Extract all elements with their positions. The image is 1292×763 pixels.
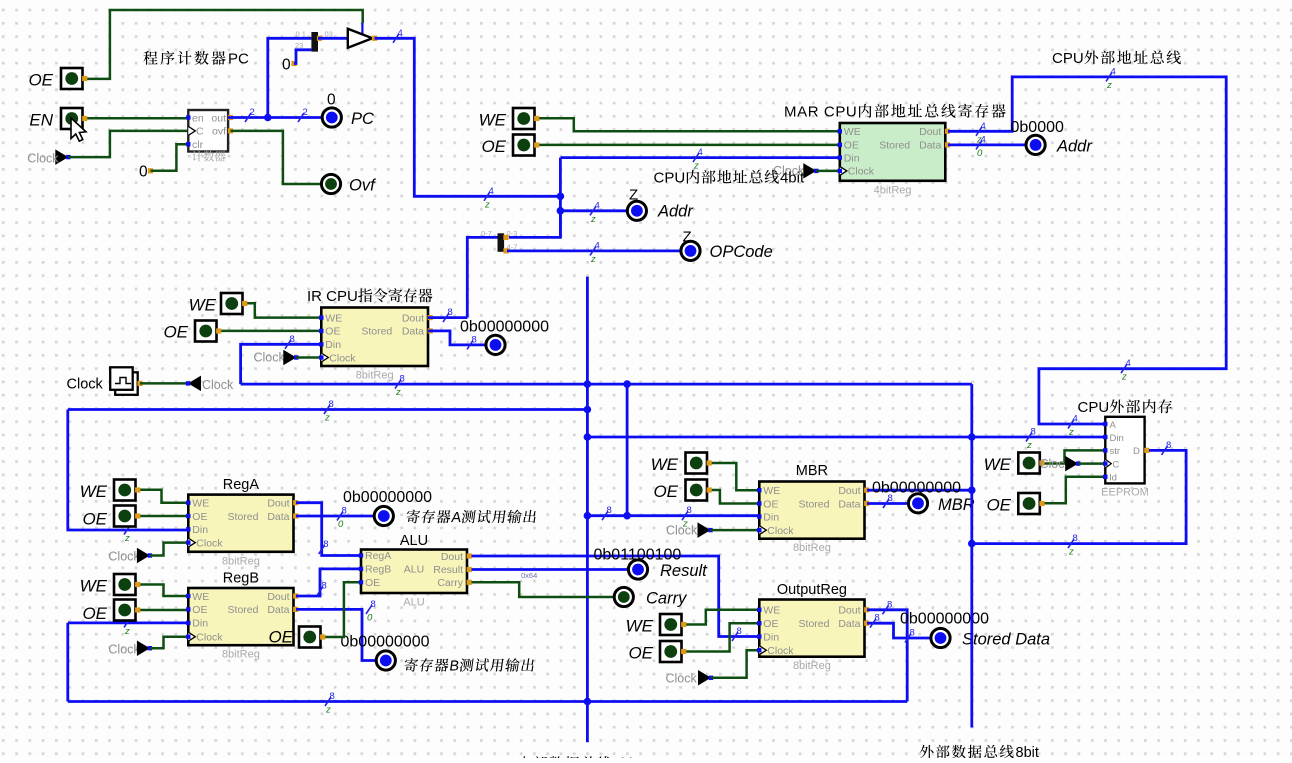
label bus width 8 (RegB Dout)	[317, 581, 327, 596]
label bus width 4 (ext addr bus)	[1106, 66, 1116, 91]
svg-text:8: 8	[371, 599, 376, 610]
svg-text:0b0000: 0b0000	[1011, 119, 1064, 136]
svg-text:z: z	[1121, 372, 1127, 383]
wire clock to IR	[296, 356, 321, 359]
svg-text:4: 4	[595, 240, 600, 251]
label bus width 8 (EEPROM D)	[1162, 440, 1172, 455]
counter U1 (PC counter)	[186, 110, 233, 152]
input button OE (OutputReg)	[660, 641, 686, 662]
svg-text:8bitReg: 8bitReg	[222, 555, 260, 567]
mouse cursor	[71, 118, 86, 141]
svg-text:4: 4	[698, 147, 703, 158]
svg-text:WE: WE	[844, 126, 861, 138]
wire clock to EEPROM C	[1078, 462, 1105, 465]
svg-text:8: 8	[1166, 440, 1171, 451]
wire MAR Dout to ext addr bus	[948, 77, 1226, 424]
svg-text:OE: OE	[192, 604, 207, 616]
node addr bus junction B	[557, 207, 565, 215]
register RegA (8bitReg)	[186, 495, 298, 568]
svg-text:RegB: RegB	[223, 571, 259, 587]
output pin Stored Data pin	[931, 628, 950, 647]
svg-text:8: 8	[322, 581, 327, 592]
svg-text:0: 0	[282, 57, 291, 74]
wire WE to MBR	[709, 463, 759, 490]
svg-text:8bitReg: 8bitReg	[222, 649, 260, 661]
wire MBR Din wire	[587, 514, 759, 517]
svg-text:clr: clr	[192, 139, 204, 151]
svg-text:23: 23	[295, 41, 303, 50]
svg-text:Data: Data	[267, 604, 289, 616]
svg-text:WE: WE	[763, 485, 780, 497]
svg-text:0: 0	[139, 163, 148, 180]
output pin Carry	[614, 587, 633, 606]
register MAR (4bitReg)	[838, 123, 951, 196]
svg-text:Stored: Stored	[799, 498, 830, 510]
svg-text:WE: WE	[80, 577, 108, 596]
svg-text:z: z	[484, 199, 490, 210]
svg-text:Dout: Dout	[267, 498, 289, 510]
input button WE (RegB)	[114, 574, 140, 595]
tunnel Clock for RegA	[137, 548, 152, 564]
svg-text:Dout: Dout	[838, 605, 860, 617]
output pin RegA test output	[374, 506, 393, 525]
output pin Addr (external)	[1026, 135, 1045, 154]
svg-text:PC: PC	[351, 110, 374, 128]
output pin PC	[322, 108, 341, 127]
node data bus x reg din	[584, 406, 592, 414]
tunnel Clock source for counter	[55, 149, 70, 165]
tri-state buffer (PC to bus)	[348, 29, 377, 48]
svg-text:WE: WE	[479, 111, 507, 130]
svg-text:Z: Z	[683, 229, 692, 246]
svg-text:8: 8	[1031, 427, 1036, 438]
label bus width 8 (MBR Din b)	[682, 505, 692, 530]
wire IR Din wire	[241, 344, 322, 384]
svg-text:Z: Z	[629, 187, 638, 204]
svg-text:Clock: Clock	[666, 672, 698, 686]
svg-text:z: z	[1106, 80, 1112, 91]
svg-text:Data: Data	[838, 618, 860, 630]
output pin Addr (internal)	[627, 201, 646, 220]
svg-text:WE: WE	[984, 455, 1012, 474]
input button OE (EEPROM)	[1018, 493, 1044, 514]
label bus width 8 (data bus)	[395, 374, 405, 399]
svg-text:Stored Data: Stored Data	[962, 631, 1050, 649]
svg-text:0b00000000: 0b00000000	[341, 634, 430, 651]
wire OutputReg stored to pin	[867, 623, 931, 638]
output pin MBR output pin	[908, 494, 927, 513]
svg-text:Clock: Clock	[108, 550, 140, 564]
svg-text:4: 4	[489, 186, 494, 197]
node eeprom din x	[968, 433, 976, 441]
svg-text:WE: WE	[80, 482, 108, 501]
svg-text:MBR: MBR	[796, 463, 828, 479]
svg-text:CPU: CPU	[1052, 50, 1084, 67]
wire RegA Dout to ALU	[296, 503, 361, 556]
svg-text:Data: Data	[402, 326, 424, 338]
svg-text:0b00000000: 0b00000000	[460, 319, 549, 336]
svg-text:z: z	[1026, 440, 1032, 451]
svg-text:8: 8	[607, 505, 612, 516]
input button OE button (ALU)	[299, 627, 325, 648]
node addr bus junction A	[557, 193, 565, 201]
svg-text:0: 0	[977, 148, 983, 159]
wire WE to RegB	[138, 585, 189, 597]
wire clock to RegB	[150, 637, 188, 649]
ALU U2	[359, 550, 472, 609]
label MAR CPU内部地址总线寄存器	[784, 104, 1006, 121]
svg-text:ALU: ALU	[403, 597, 424, 609]
wire OE to RegB	[138, 609, 189, 612]
wire OE to RegA	[138, 515, 189, 518]
node data bus x IR feed	[584, 380, 592, 388]
svg-text:Clock: Clock	[67, 377, 104, 393]
svg-text:4: 4	[595, 200, 600, 211]
label bus width 8 (RegA Din)	[124, 520, 134, 545]
svg-text:MAR CPU: MAR CPU	[784, 104, 857, 121]
wire MBR stored to pin	[867, 502, 908, 505]
wire IR[4-7] to OPCode	[507, 249, 681, 252]
wire ALU Dout to OutputReg Din	[472, 556, 760, 637]
svg-text:z: z	[693, 161, 699, 172]
svg-text:Addr: Addr	[1056, 138, 1093, 156]
svg-text:A: A	[1110, 420, 1117, 431]
svg-text:Addr: Addr	[657, 203, 694, 221]
svg-text:IR CPU: IR CPU	[307, 288, 358, 305]
label bus width 8 (RegB Din)	[124, 612, 134, 637]
svg-text:CPU: CPU	[654, 170, 686, 187]
svg-text:2: 2	[303, 107, 308, 118]
wire OE to MBR	[709, 490, 759, 504]
svg-text:8bit: 8bit	[1016, 745, 1039, 758]
svg-text:4: 4	[1126, 358, 1131, 369]
wire bottom bus left leg	[66, 623, 69, 702]
wire EEPROM Din wire	[587, 436, 1105, 439]
input button OE (IR)	[195, 321, 221, 342]
wire 0 to counter clr	[151, 144, 189, 171]
tunnel Clock for IR	[283, 350, 298, 366]
svg-text:OE: OE	[325, 326, 340, 338]
svg-text:z: z	[324, 413, 330, 424]
label bus width 8 (IR test out)	[467, 334, 477, 349]
svg-text:OutputReg: OutputReg	[777, 582, 847, 598]
wire IR dout vertical	[467, 237, 497, 317]
svg-text:RegA: RegA	[365, 550, 391, 562]
label 程序计数器PC	[143, 51, 249, 68]
svg-text:OPCode: OPCode	[710, 243, 773, 261]
label bus width 4 (MAR stored)	[976, 134, 986, 159]
input button WE (EEPROM)	[1018, 453, 1044, 474]
svg-text:8: 8	[687, 505, 692, 516]
svg-text:4: 4	[398, 28, 403, 39]
tunnel Clock for OutputReg	[698, 670, 713, 686]
wire RegA stored to pin	[296, 515, 374, 518]
svg-text:Clock: Clock	[848, 166, 875, 178]
node bus x MBR din	[584, 512, 592, 520]
svg-text:WE: WE	[325, 312, 342, 324]
svg-text:Clock: Clock	[196, 537, 223, 549]
node MBR din tap joint	[623, 512, 631, 520]
node bus x eeprom din	[584, 433, 592, 441]
svg-text:4: 4	[1111, 66, 1116, 77]
svg-text:Clock: Clock	[202, 378, 234, 392]
wire ovf to Ovf pin	[231, 131, 322, 184]
svg-text:z: z	[1068, 547, 1074, 558]
svg-text:Din: Din	[844, 152, 860, 164]
label bus width 8 (MBR Din a)	[602, 505, 612, 520]
label 内部数据总线8bit (clipped)	[519, 756, 637, 763]
svg-text:ALU: ALU	[404, 564, 424, 576]
wire WE to IR	[245, 303, 322, 317]
output pin RegB test output	[376, 651, 395, 670]
svg-text:WE: WE	[651, 455, 679, 474]
svg-text:Stored: Stored	[228, 511, 259, 523]
wire counter out bus	[228, 116, 322, 119]
svg-text:0b00000000: 0b00000000	[900, 611, 989, 628]
svg-text:Clock: Clock	[767, 525, 794, 537]
svg-text:z: z	[590, 254, 596, 265]
label 计数器 (counter subtitle)	[192, 151, 226, 162]
svg-text:OE: OE	[365, 577, 380, 589]
svg-text:out: out	[211, 112, 226, 124]
wire RegB stored to pin	[296, 609, 376, 660]
input button OE (MAR)	[513, 135, 539, 156]
wire OE to ALU	[323, 582, 362, 637]
svg-text:Data: Data	[838, 498, 860, 510]
svg-text:OE: OE	[82, 510, 107, 529]
svg-text:Clock: Clock	[329, 352, 356, 364]
input button WE (OutputReg)	[660, 614, 686, 635]
wire ALU Carry to pin	[472, 582, 614, 597]
wire MBR din vertical	[626, 384, 629, 516]
svg-text:Dout: Dout	[838, 485, 860, 497]
label bus width 8 (RegB test)	[366, 599, 376, 624]
svg-text:OE: OE	[844, 140, 859, 152]
label bus width 4 (buffer out)	[393, 28, 403, 43]
wire 0 to splitter 2-3	[294, 50, 311, 64]
label CPU内部地址总线4bit	[654, 170, 805, 187]
svg-text:Dout: Dout	[441, 551, 463, 563]
wire EEPROM D to ext data bus	[972, 450, 1186, 543]
svg-text:Stored: Stored	[228, 604, 259, 616]
wire WE to EEPROM str	[1041, 450, 1105, 463]
tunnel Clock sink tunnel	[186, 376, 201, 392]
svg-text:ovf: ovf	[212, 126, 226, 138]
label bus width 8 (bottom bus)	[325, 691, 335, 716]
wire MBR Dout wire	[867, 489, 972, 492]
svg-text:z: z	[124, 626, 130, 637]
svg-text:Data: Data	[267, 511, 289, 523]
svg-text:8: 8	[330, 691, 335, 702]
register MBR (8bitReg)	[757, 482, 869, 555]
svg-text:C: C	[1113, 459, 1120, 470]
constant 0 high nub	[291, 61, 296, 66]
svg-text:8: 8	[910, 628, 915, 639]
label CPU外部地址总线	[1052, 50, 1181, 67]
label bus width 8 (MBR test)	[883, 493, 893, 508]
svg-text:CPU: CPU	[1078, 399, 1110, 416]
svg-text:MBR: MBR	[938, 496, 975, 514]
tunnel Clock for RegB	[137, 640, 152, 656]
svg-text:OE: OE	[82, 604, 107, 623]
svg-text:PC: PC	[228, 51, 249, 68]
register IR (8bitReg)	[319, 308, 433, 382]
svg-text:8: 8	[887, 599, 892, 610]
svg-text:Din: Din	[192, 524, 208, 536]
wire OutputReg Dout to bottom bus	[867, 610, 907, 702]
wire data bus (IR Din feed)	[241, 383, 972, 386]
svg-text:OE: OE	[28, 71, 53, 90]
svg-text:Clock: Clock	[108, 643, 140, 657]
output pin OPCode	[681, 241, 700, 260]
label bus width 4 (internal Addr)	[590, 200, 600, 225]
label bus width 4 (ext addr bus down)	[1121, 358, 1131, 383]
input button OE (MBR)	[686, 480, 712, 501]
label bus width 2 (to PC pin)	[298, 107, 308, 122]
svg-text:4bit: 4bit	[780, 170, 805, 187]
wire ext data bus vertical	[970, 384, 973, 727]
svg-text:D: D	[1133, 446, 1140, 457]
svg-text:ld: ld	[1110, 473, 1117, 484]
wire MAR stored to Addr pin	[948, 143, 1026, 146]
input button OE (PC)	[61, 68, 87, 89]
wire clock to MAR	[816, 170, 840, 173]
wire IR Dout wire	[428, 316, 467, 319]
svg-text:C: C	[196, 126, 204, 138]
tunnel Clock for EEPROM	[1065, 456, 1080, 472]
label bus width 8 (OutputReg test a)	[870, 613, 880, 628]
svg-text:WE: WE	[763, 605, 780, 617]
input button WE (RegA)	[114, 480, 140, 501]
svg-text:Clock: Clock	[767, 645, 794, 657]
constant 0 nub	[148, 168, 153, 173]
label bus width 8 (OutputReg test b)	[905, 628, 915, 643]
svg-text:OE: OE	[763, 498, 778, 510]
input button OE (RegA)	[114, 506, 140, 527]
wire addr bus vertical	[559, 158, 562, 238]
label bus width 2 (counter out)	[245, 107, 255, 122]
svg-text:Carry: Carry	[646, 590, 688, 608]
label bus width 8 (ext data bus)	[1068, 533, 1078, 558]
register RegB (8bitReg)	[186, 588, 298, 661]
wire ALU Result to pin	[472, 568, 628, 571]
svg-text:WE: WE	[192, 591, 209, 603]
label bus width 8 (RegA test)	[337, 506, 347, 531]
svg-text:OE: OE	[986, 496, 1011, 515]
register OutputReg (8bitReg)	[757, 600, 869, 673]
label bus width 8 (OutputReg Dout)	[883, 599, 893, 614]
wire OE to MAR	[537, 144, 840, 147]
wire OE to tri-state enable	[83, 10, 363, 79]
svg-text:OE: OE	[628, 644, 653, 663]
node mbr dout joint	[968, 486, 976, 494]
wire OE to EEPROM ld	[1041, 477, 1105, 503]
label bus width 8 (RegA Dout)	[319, 539, 329, 554]
wire PC bus up to splitter	[268, 38, 312, 117]
svg-text:ALU: ALU	[400, 533, 428, 549]
svg-text:Dout: Dout	[919, 126, 941, 138]
svg-text:0b00000000: 0b00000000	[872, 480, 961, 497]
input button WE (MBR)	[686, 453, 712, 474]
svg-text:Result: Result	[660, 562, 708, 580]
wire OE to IR	[218, 330, 321, 333]
svg-text:Data: Data	[919, 140, 941, 152]
svg-text:RegB: RegB	[365, 564, 391, 576]
svg-text:8: 8	[323, 539, 328, 550]
svg-text:OE: OE	[163, 323, 188, 342]
svg-text:0x64: 0x64	[521, 571, 537, 580]
label bus width 4 (MAR Din)	[693, 147, 703, 172]
svg-text:z: z	[590, 214, 596, 225]
svg-text:WE: WE	[626, 617, 654, 636]
splitter S1 (2+2 to 4)	[295, 30, 333, 52]
wire WE to OutputReg	[684, 610, 760, 625]
node ext data joint	[968, 540, 976, 548]
svg-text:0: 0	[367, 612, 373, 623]
svg-text:z: z	[325, 705, 331, 716]
svg-text:EN: EN	[29, 111, 53, 130]
node bus x bottom	[584, 698, 592, 706]
wire clock to OutputReg	[711, 650, 759, 678]
svg-text:Dout: Dout	[267, 591, 289, 603]
output pin Ovf	[321, 174, 340, 193]
svg-text:WE: WE	[192, 498, 209, 510]
label bus width 8 (EEPROM Din)	[1026, 427, 1036, 452]
svg-text:0b01100100: 0b01100100	[594, 546, 682, 563]
wire clock to tunnel	[140, 382, 188, 385]
svg-text:Clock: Clock	[196, 632, 223, 644]
label IR CPU指令寄存器	[307, 288, 432, 305]
svg-text:z: z	[124, 533, 130, 544]
label bus width 8 (reg din bus)	[324, 399, 334, 424]
svg-text:Ovf: Ovf	[349, 177, 377, 195]
node MBR din tap	[623, 380, 631, 388]
wire reg din bus	[68, 408, 588, 411]
input button WE (MAR)	[513, 108, 539, 129]
wire EN to counter en	[84, 117, 188, 120]
svg-text:Clock: Clock	[666, 524, 698, 538]
svg-text:str: str	[1110, 446, 1121, 457]
output pin IR test output	[486, 335, 505, 354]
svg-text:8bitReg: 8bitReg	[793, 542, 831, 554]
svg-text:en: en	[192, 112, 204, 124]
svg-text:Stored: Stored	[879, 140, 910, 152]
memory EEPROM (CPU external)	[1101, 417, 1149, 499]
output pin Result	[628, 560, 647, 579]
svg-text:Carry: Carry	[437, 577, 463, 589]
svg-text:Din: Din	[192, 618, 208, 630]
wire middle data bus vertical	[586, 277, 589, 743]
wire WE to MAR	[537, 118, 840, 131]
wire WE to RegA	[138, 490, 189, 503]
label bus width 8 (OutputReg Din)	[732, 626, 742, 641]
svg-text:8: 8	[448, 307, 453, 318]
svg-text:4: 4	[981, 134, 986, 145]
svg-text:8: 8	[472, 334, 477, 345]
label 寄存器B测试用输出	[403, 658, 535, 674]
svg-text:Din: Din	[763, 631, 779, 643]
label bus width 8 (IR Din)	[285, 334, 295, 349]
wire OE to OutputReg	[684, 623, 760, 651]
tunnel Clock for MBR	[698, 522, 713, 538]
svg-text:2: 2	[250, 107, 255, 118]
svg-text:Din: Din	[763, 511, 779, 523]
wire regB din wire	[68, 622, 189, 625]
svg-text:OE: OE	[192, 511, 207, 523]
svg-text:8bitReg: 8bitReg	[793, 660, 831, 672]
svg-text:0-7: 0-7	[481, 229, 492, 238]
label 外部数据总线8bit	[920, 745, 1039, 761]
